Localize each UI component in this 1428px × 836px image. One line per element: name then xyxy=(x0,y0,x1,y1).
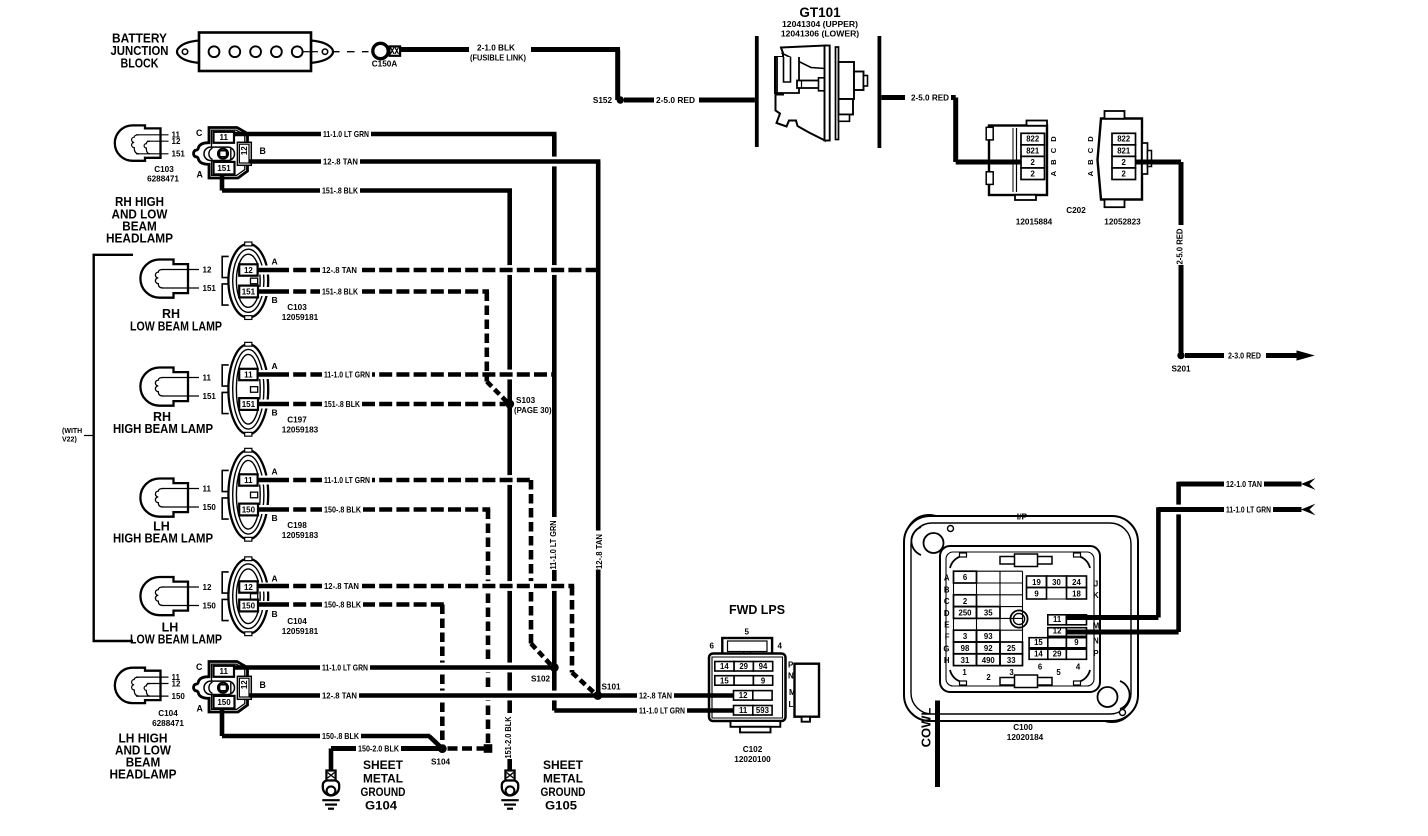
svg-text:C103: C103 xyxy=(154,165,174,174)
svg-text:B: B xyxy=(272,609,278,619)
svg-text:150: 150 xyxy=(242,506,256,515)
svg-text:A: A xyxy=(272,257,278,267)
svg-text:11: 11 xyxy=(244,371,253,380)
svg-text:12: 12 xyxy=(244,266,253,275)
svg-text:FWD LPS: FWD LPS xyxy=(729,602,785,617)
battery junction block xyxy=(177,41,199,63)
svg-text:12020100: 12020100 xyxy=(734,755,771,764)
svg-text:1: 1 xyxy=(962,668,967,677)
wire 11-1.0 LT GRN row (RH high) xyxy=(258,372,277,377)
svg-text:C103: C103 xyxy=(287,303,307,312)
svg-text:A: A xyxy=(1049,170,1058,176)
wire 11-1.0 LT GRN row (RH headlamp) xyxy=(234,132,557,137)
svg-text:2: 2 xyxy=(1031,169,1036,178)
wire 12-.8 TAN row (RH low) xyxy=(258,268,277,273)
wire 12-.8 TAN row (LH low) xyxy=(258,584,277,589)
svg-text:C: C xyxy=(196,128,203,138)
svg-text:S103: S103 xyxy=(516,396,536,405)
svg-text:12: 12 xyxy=(240,680,249,689)
svg-text:G: G xyxy=(943,644,949,653)
svg-text:N: N xyxy=(1093,637,1099,646)
wire 151-.8 BLK vertical (RH low) xyxy=(484,292,489,382)
wire 150-2.0 BLK row (G104 to S104) xyxy=(331,746,442,751)
svg-text:24: 24 xyxy=(1072,578,1081,587)
svg-text:12-1.0 TAN: 12-1.0 TAN xyxy=(1226,479,1262,489)
lamp RH low beam bulb xyxy=(140,260,188,298)
svg-text:150: 150 xyxy=(203,601,217,610)
svg-text:B: B xyxy=(260,146,266,156)
svg-text:B: B xyxy=(272,295,278,305)
svg-text:151: 151 xyxy=(217,164,231,173)
svg-text:12: 12 xyxy=(244,583,253,592)
svg-text:B: B xyxy=(1049,159,1058,165)
svg-text:4: 4 xyxy=(1076,663,1081,672)
svg-text:151-.8 BLK: 151-.8 BLK xyxy=(322,186,358,196)
svg-text:B: B xyxy=(944,585,950,594)
wire dash link to C150A xyxy=(303,51,319,53)
headlamp LH high/low beam bulb xyxy=(115,668,161,703)
svg-text:L: L xyxy=(789,700,794,709)
wire 11-1.0 LT GRN row (S102 to C102) xyxy=(554,708,733,713)
svg-text:S102: S102 xyxy=(531,675,551,684)
svg-text:11: 11 xyxy=(1053,615,1062,624)
svg-text:19: 19 xyxy=(1032,578,1041,587)
svg-text:GROUND: GROUND xyxy=(361,785,406,799)
connector C197 12059183 (RH high) xyxy=(228,344,268,434)
svg-text:12: 12 xyxy=(1053,627,1062,636)
svg-text:5: 5 xyxy=(1056,668,1061,677)
svg-text:150-.8 BLK: 150-.8 BLK xyxy=(324,505,361,515)
wire 2-1.0 BLK fusible link xyxy=(400,47,469,52)
svg-text:12059181: 12059181 xyxy=(282,627,319,636)
svg-text:150-.8 BLK: 150-.8 BLK xyxy=(322,731,359,741)
wire 11-1.0 LT GRN vertical (LH high) xyxy=(529,480,534,644)
svg-text:29: 29 xyxy=(739,662,748,671)
svg-text:G105: G105 xyxy=(545,799,577,813)
svg-text:F: F xyxy=(945,633,950,642)
svg-text:12-.8 TAN: 12-.8 TAN xyxy=(322,691,357,701)
svg-text:6: 6 xyxy=(963,573,968,582)
svg-text:2: 2 xyxy=(1031,158,1036,167)
svg-text:C: C xyxy=(944,597,950,606)
bulb GT101 socket drawing xyxy=(775,46,825,141)
wire 12-.8 TAN row (LH headlamp to C102) xyxy=(250,693,734,698)
svg-text:11: 11 xyxy=(219,667,228,676)
rotated trunk labels xyxy=(548,517,561,570)
svg-text:E: E xyxy=(944,621,949,630)
svg-text:C104: C104 xyxy=(158,709,178,718)
svg-text:151: 151 xyxy=(242,288,256,297)
ground G105 xyxy=(505,771,514,781)
svg-text:D: D xyxy=(1049,136,1058,142)
svg-text:B: B xyxy=(260,680,266,690)
svg-text:11-1.0 LT GRN: 11-1.0 LT GRN xyxy=(322,663,368,673)
svg-text:2: 2 xyxy=(986,673,991,682)
wire 150-.8 BLK row (LH high) xyxy=(258,507,277,512)
svg-text:5: 5 xyxy=(745,628,750,637)
svg-text:151: 151 xyxy=(242,400,256,409)
svg-text:11-1.0 LT GRN: 11-1.0 LT GRN xyxy=(1226,505,1271,515)
svg-text:6288471: 6288471 xyxy=(152,719,184,728)
diagonal 11 LT GRN into S102 xyxy=(531,644,552,666)
svg-text:S104: S104 xyxy=(431,758,451,767)
svg-text:9: 9 xyxy=(1074,638,1079,647)
svg-text:A: A xyxy=(197,170,204,180)
svg-text:HEADLAMP: HEADLAMP xyxy=(106,232,173,246)
svg-text:M: M xyxy=(1093,622,1100,631)
svg-text:12-.8 TAN: 12-.8 TAN xyxy=(594,534,604,569)
svg-text:150: 150 xyxy=(172,692,186,701)
wire 2-5.0 RED (C202 down to S201) xyxy=(1136,160,1182,165)
svg-text:B: B xyxy=(1086,159,1095,165)
svg-text:2-5.0 RED: 2-5.0 RED xyxy=(656,95,695,105)
svg-text:94: 94 xyxy=(759,662,768,671)
svg-text:12: 12 xyxy=(203,265,212,274)
wire 12-.8 TAN row (RH headlamp) xyxy=(250,159,601,164)
svg-text:4: 4 xyxy=(778,642,783,651)
svg-text:30: 30 xyxy=(1052,578,1061,587)
svg-text:6: 6 xyxy=(710,642,715,651)
connector C202 half 12052823 xyxy=(1098,119,1143,200)
svg-text:12015884: 12015884 xyxy=(1016,218,1053,227)
wire 150-.8 BLK vertical (LH low) xyxy=(440,605,445,747)
svg-text:C202: C202 xyxy=(1066,206,1086,215)
splice S103 xyxy=(505,400,514,409)
wire 150 pin stub (LH headlamp) xyxy=(220,708,225,736)
svg-text:METAL: METAL xyxy=(543,772,583,786)
svg-text:11: 11 xyxy=(244,476,253,485)
wire trunk 12-.8 TAN vertical xyxy=(596,162,601,694)
svg-text:12059181: 12059181 xyxy=(282,313,319,322)
svg-text:2: 2 xyxy=(1122,169,1127,178)
svg-text:2: 2 xyxy=(1122,158,1127,167)
svg-text:C198: C198 xyxy=(287,521,307,530)
svg-text:C197: C197 xyxy=(287,416,307,425)
svg-text:593: 593 xyxy=(756,706,770,715)
svg-text:D: D xyxy=(1086,136,1095,142)
svg-text:151-.8 BLK: 151-.8 BLK xyxy=(324,399,360,409)
wire 150-.8 BLK row (LH headlamp) xyxy=(222,734,430,739)
svg-text:C: C xyxy=(196,662,203,672)
bulb GT101 bars xyxy=(755,36,759,147)
wire 151 pin stub (RH headlamp) xyxy=(220,174,225,191)
svg-text:11: 11 xyxy=(739,706,748,715)
svg-text:LOW BEAM LAMP: LOW BEAM LAMP xyxy=(130,320,222,334)
svg-text:C104: C104 xyxy=(287,617,307,626)
svg-text:25: 25 xyxy=(1007,644,1016,653)
svg-text:15: 15 xyxy=(720,676,729,685)
svg-text:11: 11 xyxy=(219,133,228,142)
svg-text:GT101: GT101 xyxy=(799,5,841,20)
svg-text:6: 6 xyxy=(1038,663,1043,672)
svg-text:151: 151 xyxy=(203,392,217,401)
svg-text:151-.8 BLK: 151-.8 BLK xyxy=(322,287,358,297)
wire 11-1.0 LT GRN row (LH high) xyxy=(258,478,277,483)
svg-text:12-.8 TAN: 12-.8 TAN xyxy=(639,691,672,701)
svg-text:K: K xyxy=(1093,591,1099,600)
svg-text:12041306 (LOWER): 12041306 (LOWER) xyxy=(781,29,859,39)
svg-text:I/P: I/P xyxy=(1017,512,1028,522)
svg-text:2-3.0 RED: 2-3.0 RED xyxy=(1228,351,1261,361)
splice S101 xyxy=(593,691,602,700)
svg-text:J: J xyxy=(1094,580,1098,589)
svg-text:A: A xyxy=(272,361,278,371)
svg-text:C100: C100 xyxy=(1013,723,1033,732)
svg-text:2-1.0 BLK: 2-1.0 BLK xyxy=(477,43,515,53)
svg-text:(PAGE 30): (PAGE 30) xyxy=(514,406,552,415)
svg-text:(FUSIBLE LINK): (FUSIBLE LINK) xyxy=(470,53,526,63)
svg-text:11-1.0 LT GRN: 11-1.0 LT GRN xyxy=(324,475,370,485)
svg-text:11-1.0 LT GRN: 11-1.0 LT GRN xyxy=(324,370,370,380)
svg-text:29: 29 xyxy=(1053,650,1062,659)
splice S104 xyxy=(438,744,447,753)
svg-text:S152: S152 xyxy=(593,96,613,105)
svg-text:151-2.0 BLK: 151-2.0 BLK xyxy=(503,716,513,758)
svg-text:COWL: COWL xyxy=(919,708,934,748)
connector C104 6288471 (LH headlamp) xyxy=(194,662,248,713)
connector C202 half 12015884 xyxy=(989,126,1047,196)
wire 151-.8 BLK row (RH headlamp) xyxy=(222,188,512,193)
splice S102 xyxy=(550,663,559,672)
svg-text:12: 12 xyxy=(172,137,181,146)
wire 11-1.0 LT GRN (right, to arrow) xyxy=(1158,507,1224,512)
svg-text:2-5.0 RED: 2-5.0 RED xyxy=(911,93,949,103)
svg-text:33: 33 xyxy=(1007,656,1016,665)
svg-text:11-1.0 LT GRN: 11-1.0 LT GRN xyxy=(323,129,369,139)
svg-text:C: C xyxy=(1086,147,1095,153)
wire 12-1.0 TAN (right, to arrow) xyxy=(1179,482,1224,487)
svg-text:151: 151 xyxy=(203,284,217,293)
wire 2-5.0 RED (GT101 to C202) xyxy=(881,95,905,100)
wire trunk 11-1.0 LT GRN vertical xyxy=(552,134,557,665)
svg-text:12020184: 12020184 xyxy=(1007,733,1044,742)
svg-text:12: 12 xyxy=(240,146,249,155)
wire crossing gaps xyxy=(506,265,514,275)
lamp LH low beam bulb xyxy=(140,577,188,615)
svg-text:12-.8 TAN: 12-.8 TAN xyxy=(323,157,358,167)
wire 12-.8 TAN vertical (LH low) xyxy=(570,586,575,673)
svg-text:B: B xyxy=(272,408,278,418)
splice S152 xyxy=(617,96,624,103)
svg-text:(WITH: (WITH xyxy=(62,428,82,435)
svg-text:12052823: 12052823 xyxy=(1104,218,1141,227)
svg-text:SHEET: SHEET xyxy=(543,758,584,772)
svg-text:G104: G104 xyxy=(365,799,397,813)
svg-text:A: A xyxy=(197,704,204,714)
svg-text:14: 14 xyxy=(720,662,729,671)
svg-text:821: 821 xyxy=(1026,146,1040,155)
diagonal 151 BLK into S103 xyxy=(487,382,507,402)
diagonal 12 TAN into S101 xyxy=(572,673,595,694)
svg-text:9: 9 xyxy=(1034,589,1039,598)
splice S201 xyxy=(1177,352,1184,359)
svg-text:11: 11 xyxy=(203,484,212,493)
svg-text:HEADLAMP: HEADLAMP xyxy=(110,768,177,782)
svg-text:150-.8 BLK: 150-.8 BLK xyxy=(324,600,361,610)
svg-text:12: 12 xyxy=(172,679,181,688)
svg-text:12041304 (UPPER): 12041304 (UPPER) xyxy=(782,19,858,29)
lamp RH high beam bulb xyxy=(140,368,188,406)
svg-text:150: 150 xyxy=(217,698,231,707)
svg-text:98: 98 xyxy=(961,644,970,653)
svg-text:12-.8 TAN: 12-.8 TAN xyxy=(324,581,359,591)
svg-text:12: 12 xyxy=(739,691,748,700)
wire 11-1.0 LT GRN row (LH headlamp) xyxy=(234,665,554,670)
connector C103 12059181 (RH low) xyxy=(228,244,268,318)
svg-text:821: 821 xyxy=(1117,146,1131,155)
svg-text:A: A xyxy=(272,467,278,477)
svg-text:822: 822 xyxy=(1117,135,1131,144)
wire 11-1.0 LT GRN vertical (right) xyxy=(1156,507,1161,617)
connector C100 I/P xyxy=(906,515,952,561)
svg-text:14: 14 xyxy=(1034,650,1043,659)
svg-text:18: 18 xyxy=(1072,589,1081,598)
svg-text:M: M xyxy=(789,688,796,697)
svg-text:12059183: 12059183 xyxy=(282,426,319,435)
wire trunk 151 BLK vertical xyxy=(507,191,512,771)
wire C100 pin 11 row xyxy=(1067,615,1159,620)
svg-text:D: D xyxy=(944,609,950,618)
svg-text:V22): V22) xyxy=(62,437,77,444)
svg-text:12: 12 xyxy=(203,583,212,592)
svg-text:250: 250 xyxy=(958,609,972,618)
svg-text:150-2.0 BLK: 150-2.0 BLK xyxy=(358,744,399,754)
svg-text:11: 11 xyxy=(203,373,212,382)
svg-text:31: 31 xyxy=(961,656,970,665)
lamp LH high beam bulb xyxy=(140,479,188,517)
wire 2-5.0 RED (S152 to GT101) xyxy=(624,98,654,103)
wire 2-3.0 RED with arrow xyxy=(1185,353,1224,358)
COWL marker xyxy=(935,701,940,788)
svg-text:490: 490 xyxy=(982,656,996,665)
svg-text:BLOCK: BLOCK xyxy=(121,57,159,71)
connector C104 12059181 (LH low) xyxy=(228,559,268,634)
svg-text:9: 9 xyxy=(761,676,766,685)
connector C198 12059183 (LH high) xyxy=(228,450,268,539)
diagonal into S104 xyxy=(429,736,441,748)
wire G104 riser xyxy=(329,749,334,772)
svg-text:11-1.0 LT GRN: 11-1.0 LT GRN xyxy=(639,706,685,716)
bracket WITH V22 xyxy=(94,255,133,641)
wire C100 pin 12 row xyxy=(1067,630,1179,635)
svg-text:P: P xyxy=(788,661,794,670)
wire 150-2.0 BLK dashed (S104 to LH high BLK) xyxy=(448,746,491,751)
svg-text:S201: S201 xyxy=(1171,365,1191,374)
svg-text:A: A xyxy=(1086,170,1095,176)
svg-text:GROUND: GROUND xyxy=(541,785,586,799)
svg-text:P: P xyxy=(1093,649,1098,658)
svg-text:HIGH BEAM LAMP: HIGH BEAM LAMP xyxy=(113,422,213,436)
svg-text:S101: S101 xyxy=(601,683,621,692)
headlamp RH high/low beam bulb xyxy=(115,125,161,160)
svg-text:150: 150 xyxy=(242,602,256,611)
svg-text:92: 92 xyxy=(984,644,993,653)
wire labels xyxy=(321,128,371,139)
svg-text:C102: C102 xyxy=(743,745,763,754)
svg-text:2: 2 xyxy=(963,597,968,606)
svg-text:35: 35 xyxy=(984,609,993,618)
wire 12-1.0 TAN vertical (right) xyxy=(1176,482,1181,632)
wire 151-.8 BLK row (RH low) xyxy=(258,289,277,294)
svg-text:3: 3 xyxy=(963,632,968,641)
svg-text:151: 151 xyxy=(172,150,186,159)
ground G104 xyxy=(326,771,335,781)
svg-text:A: A xyxy=(272,574,278,584)
svg-text:LOW BEAM LAMP: LOW BEAM LAMP xyxy=(130,633,222,647)
svg-text:SHEET: SHEET xyxy=(363,758,404,772)
svg-text:150: 150 xyxy=(203,503,217,512)
connector C150A ring terminal xyxy=(373,43,388,58)
svg-text:C: C xyxy=(1049,147,1058,153)
svg-text:2-5.0 RED: 2-5.0 RED xyxy=(1175,228,1185,264)
svg-text:12059183: 12059183 xyxy=(282,531,319,540)
svg-text:11-1.0 LT GRN: 11-1.0 LT GRN xyxy=(548,520,558,569)
svg-text:93: 93 xyxy=(984,632,993,641)
wire 150-.8 BLK row (LH low) xyxy=(258,602,277,607)
svg-text:B: B xyxy=(272,513,278,523)
svg-text:C150A: C150A xyxy=(372,60,398,69)
svg-text:METAL: METAL xyxy=(363,772,403,786)
wire 151-.8 BLK row (RH high) xyxy=(258,402,277,407)
svg-text:3: 3 xyxy=(1009,668,1014,677)
svg-text:15: 15 xyxy=(1034,638,1043,647)
svg-text:6288471: 6288471 xyxy=(147,175,179,184)
wire 150-.8 BLK vertical (LH high) xyxy=(486,510,491,747)
svg-text:N: N xyxy=(788,672,794,681)
connector C103 6288471 (RH headlamp) xyxy=(194,128,248,179)
svg-text:12-.8 TAN: 12-.8 TAN xyxy=(322,265,357,275)
svg-text:A: A xyxy=(944,574,950,583)
svg-text:HIGH BEAM LAMP: HIGH BEAM LAMP xyxy=(113,532,213,546)
svg-text:H: H xyxy=(944,656,950,665)
svg-text:822: 822 xyxy=(1026,135,1040,144)
